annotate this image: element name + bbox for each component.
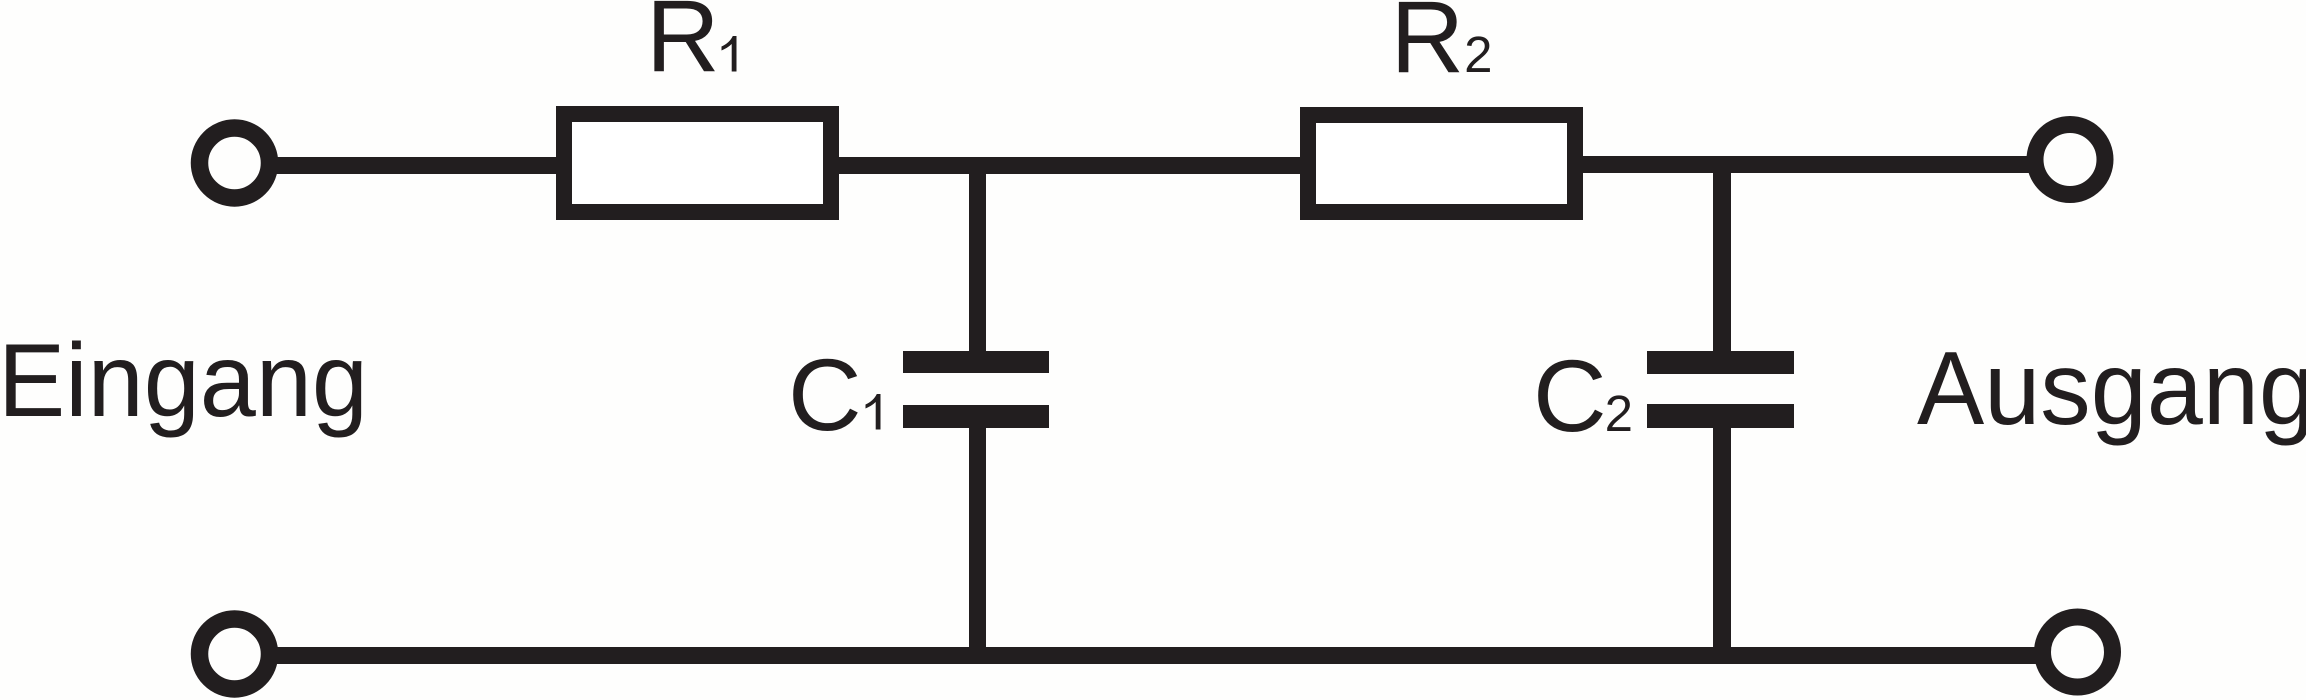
terminal output top <box>2035 125 2105 195</box>
capacitor C1 bottom plate <box>903 405 1049 428</box>
resistor R2 <box>1308 115 1575 212</box>
capacitor C2 top plate <box>1647 351 1794 374</box>
svg-text:C: C <box>788 338 862 452</box>
wire C1 to bottom rail <box>969 418 986 658</box>
terminal input bottom <box>200 619 270 689</box>
wire R2 to output <box>1579 156 2037 173</box>
svg-text:Ausgang: Ausgang <box>1917 331 2306 447</box>
svg-text:C2: C2 <box>1533 339 1633 453</box>
resistor R1 <box>564 114 831 212</box>
svg-text:Eingang: Eingang <box>0 323 368 439</box>
svg-text:R2: R2 <box>1391 0 1493 94</box>
wire node B down to C2 <box>1713 164 1731 361</box>
capacitor C1 top plate <box>903 351 1049 373</box>
terminal input top <box>200 128 270 198</box>
wire node A down to C1 <box>969 165 986 361</box>
svg-text:R: R <box>646 0 720 93</box>
wire input to R1 <box>274 157 562 174</box>
terminal output bottom <box>2043 617 2113 687</box>
capacitor C2 bottom plate <box>1647 404 1794 428</box>
wire C2 to bottom rail <box>1713 418 1731 658</box>
wire R1 to node A <box>833 157 1304 174</box>
wire bottom rail <box>274 647 2042 664</box>
